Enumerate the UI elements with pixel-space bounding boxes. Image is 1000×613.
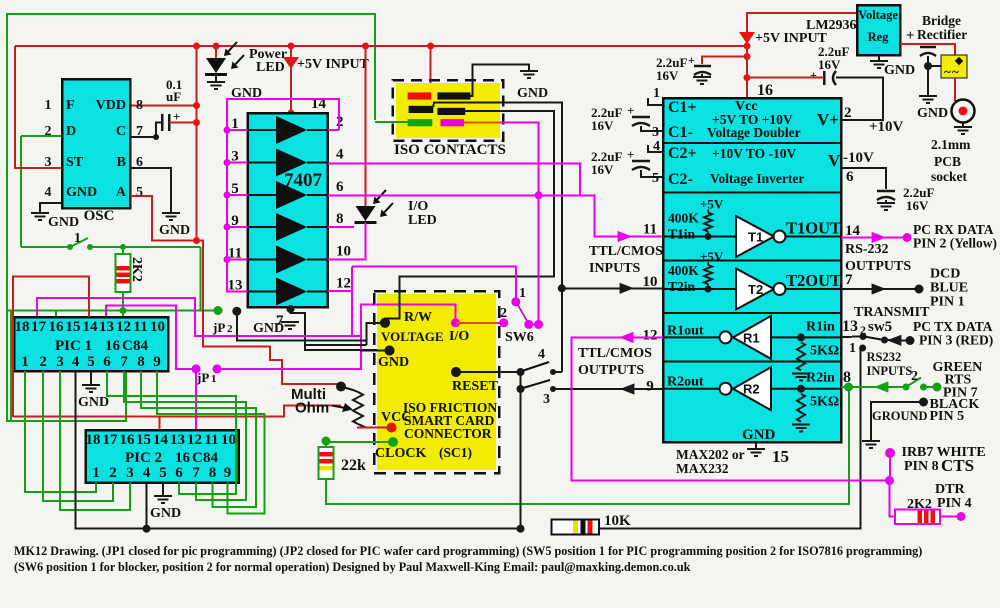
svg-text:13: 13 <box>842 318 858 335</box>
wire R1out magenta to CTS net <box>572 337 890 480</box>
ground MAX pin15 <box>755 442 757 449</box>
wire bottom rail right to sw5 throw1 <box>599 348 861 529</box>
ISO pad RST row2 left <box>409 106 434 113</box>
capacitor 2.2uF 16V on -10V <box>877 190 895 193</box>
7407 buffer 5 <box>276 246 307 274</box>
wire 22k to R2in long green <box>326 387 849 504</box>
variable resistor Multi Ohm <box>336 382 346 392</box>
wire I/O inside SC1 redraw <box>374 304 456 323</box>
svg-text:22k: 22k <box>341 457 366 474</box>
ground PCB socket <box>954 127 972 134</box>
wire 7407 pin12 net <box>328 290 353 292</box>
IC PIC 2 16C84 <box>86 430 239 483</box>
svg-text:R1: R1 <box>743 330 760 345</box>
svg-text:SW6: SW6 <box>505 330 534 345</box>
svg-text:4: 4 <box>653 139 660 154</box>
connector ISO CONTACTS <box>396 83 500 138</box>
wire PIC1 pin5 ground <box>90 371 92 385</box>
svg-text:C1-: C1- <box>668 124 693 141</box>
svg-text:PIC 2: PIC 2 <box>125 450 162 466</box>
svg-text:RS232: RS232 <box>867 350 902 364</box>
svg-text:GROUND: GROUND <box>872 409 928 423</box>
svg-text:(SW6 position 1 for blocker, p: (SW6 position 1 for blocker, position 2 … <box>14 560 691 574</box>
svg-text:8: 8 <box>336 211 344 227</box>
svg-text:11: 11 <box>133 319 147 335</box>
node jp1 pins <box>192 364 201 373</box>
svg-text:F: F <box>66 98 75 113</box>
wire: green to OSC pin2 D <box>21 135 62 137</box>
wire OSC pin6 B to ground <box>130 168 171 213</box>
svg-text:10: 10 <box>150 319 165 335</box>
svg-text:12: 12 <box>116 319 131 335</box>
svg-text:16V: 16V <box>591 118 614 133</box>
wire ISO row2-right to R/W net <box>385 111 554 323</box>
svg-text:17: 17 <box>103 432 119 448</box>
wire GROUND pin5 black <box>919 398 928 407</box>
connector 2.1mm PCB socket <box>952 100 975 123</box>
svg-text:ST: ST <box>66 155 84 170</box>
wire green PIC1.6 loop to PIC2.6 <box>107 371 236 494</box>
ground PIC2 <box>154 496 172 503</box>
svg-text:7407: 7407 <box>284 170 323 191</box>
svg-text:+5V: +5V <box>700 197 724 212</box>
svg-text:10: 10 <box>221 432 236 448</box>
svg-text:+: + <box>688 53 695 67</box>
node rail to ISO VCC pad <box>427 43 434 50</box>
svg-text:16V: 16V <box>591 162 614 177</box>
wire: rail branch down at x196 <box>196 46 198 241</box>
svg-text:I/O: I/O <box>449 329 469 344</box>
svg-text:TTL/CMOS: TTL/CMOS <box>589 244 663 259</box>
svg-text:1: 1 <box>519 286 526 301</box>
svg-text:(SC1): (SC1) <box>439 445 472 460</box>
svg-text:14: 14 <box>845 223 861 239</box>
svg-text:DTR: DTR <box>935 482 965 497</box>
svg-text:15: 15 <box>772 447 789 466</box>
node SC1 pin VCC <box>387 423 397 433</box>
svg-text:T2: T2 <box>748 282 763 297</box>
ground bridge cap <box>919 96 937 103</box>
svg-text:R2: R2 <box>743 382 760 397</box>
node SC1 pin R/W <box>380 318 390 328</box>
wire: +5V supply rail <box>15 45 747 47</box>
svg-text:C: C <box>122 338 133 354</box>
wire: 2K2 leads <box>122 247 124 254</box>
svg-text:T1OUT: T1OUT <box>786 219 841 238</box>
svg-text:PIN 8: PIN 8 <box>904 459 939 474</box>
wire RTS green with switch 2 <box>844 383 853 392</box>
svg-text:15: 15 <box>66 319 81 335</box>
wire ISO GND pad to ground <box>470 65 529 96</box>
wire R/W entry redraw <box>385 291 400 323</box>
7407 buffer 1 <box>276 116 307 144</box>
svg-text:Voltage: Voltage <box>858 8 898 22</box>
svg-text:+10V TO -10V: +10V TO -10V <box>712 146 796 161</box>
svg-text:+5V: +5V <box>700 249 724 264</box>
svg-text:TRANSMIT: TRANSMIT <box>854 305 930 320</box>
ground LM2936 <box>878 55 880 61</box>
svg-text:PIN 1: PIN 1 <box>930 295 965 310</box>
svg-text:1: 1 <box>92 465 100 481</box>
svg-text:84: 84 <box>203 450 219 466</box>
svg-text:8: 8 <box>137 354 145 370</box>
wire jp2 pin2 to ground net <box>237 311 367 340</box>
svg-text:jP: jP <box>212 320 225 335</box>
wire RESET redraw <box>456 371 521 373</box>
svg-text:R1out: R1out <box>667 323 704 338</box>
svg-text:4: 4 <box>538 347 545 362</box>
svg-text:D: D <box>66 124 76 139</box>
svg-text:400K: 400K <box>668 263 699 278</box>
svg-text:2: 2 <box>911 369 918 384</box>
wire: green riser at x11 <box>10 311 12 422</box>
svg-text:5: 5 <box>159 465 167 481</box>
svg-text:16: 16 <box>757 82 773 99</box>
svg-text:8: 8 <box>136 98 143 113</box>
svg-text:1: 1 <box>211 373 217 385</box>
7407 buffer 2 <box>276 149 307 177</box>
ISO pad CLOCK green <box>408 119 433 126</box>
svg-text:8: 8 <box>209 465 217 481</box>
svg-text:10: 10 <box>336 244 351 260</box>
IC MAX202 or MAX232 <box>663 98 841 442</box>
IC 7407 hex buffer <box>248 113 328 307</box>
svg-text:OUTPUTS: OUTPUTS <box>578 363 644 378</box>
wire PIC2 pin5 ground <box>162 483 164 497</box>
svg-text:2: 2 <box>39 354 47 370</box>
resistor 22k vertical <box>325 442 327 447</box>
wire magenta PIC1 pin17 / 7407 pin12 net <box>37 298 352 336</box>
power flag +5V INPUT left <box>288 43 295 50</box>
svg-text:CTS: CTS <box>941 456 974 475</box>
svg-text:16V: 16V <box>906 198 929 213</box>
svg-text:CONNECTOR: CONNECTOR <box>404 426 492 441</box>
svg-text:C2+: C2+ <box>668 145 697 162</box>
wire 7407 pin2 stub <box>328 129 340 131</box>
switch 4 <box>522 362 549 371</box>
svg-text:uF: uF <box>166 89 181 104</box>
svg-text:Ohm: Ohm <box>295 400 329 417</box>
svg-text:16V: 16V <box>656 68 679 83</box>
wire SC1 RESET to switches <box>456 371 521 373</box>
svg-text:T2in: T2in <box>668 279 696 294</box>
svg-text:INPUTS: INPUTS <box>867 364 913 378</box>
svg-text:16V: 16V <box>818 57 841 72</box>
svg-text:Voltage Inverter: Voltage Inverter <box>710 171 804 186</box>
svg-text:5: 5 <box>136 185 143 200</box>
wire OSC pin4 GND <box>40 203 62 213</box>
wire SC1 I/O pin to SW6 throw 2 <box>455 304 457 323</box>
wire PIC2 pin4 to bottom ground rail <box>146 483 148 529</box>
resistor 5K R2 <box>797 394 805 422</box>
svg-text:17: 17 <box>31 319 47 335</box>
svg-text:Rectifier: Rectifier <box>917 27 967 42</box>
svg-text:C: C <box>192 450 203 466</box>
wire red MCLR rail to PIC2 pin14 and multiohm wiper <box>13 406 341 417</box>
node jp2 pin 1 <box>214 306 223 315</box>
node A net junction <box>193 237 200 244</box>
svg-text:INPUTS: INPUTS <box>589 261 641 276</box>
svg-text:16: 16 <box>105 338 121 354</box>
svg-text:13: 13 <box>99 319 114 335</box>
svg-text:2: 2 <box>844 105 852 121</box>
svg-text:MAX232: MAX232 <box>676 461 729 476</box>
svg-text:9: 9 <box>646 379 654 395</box>
node power LED on rail <box>213 43 220 50</box>
svg-text:14: 14 <box>153 432 169 448</box>
svg-text:GND: GND <box>66 185 97 200</box>
ISO pad I/O magenta <box>441 119 465 126</box>
svg-text:12: 12 <box>187 432 202 448</box>
svg-text:A: A <box>116 185 127 200</box>
svg-text:OUTPUTS: OUTPUTS <box>845 259 911 274</box>
svg-text:7: 7 <box>136 124 143 139</box>
svg-text:5: 5 <box>652 171 659 186</box>
wire green PIC1.9 loop to PIC2.9 <box>157 371 265 514</box>
node IRB7 CTS terminal <box>885 448 895 458</box>
svg-text:1: 1 <box>74 231 81 246</box>
svg-text:R1in: R1in <box>806 319 835 334</box>
svg-text:PIN 5: PIN 5 <box>930 409 965 424</box>
wire OSC pin5 A red VCC net <box>130 196 341 384</box>
svg-text:T2OUT: T2OUT <box>786 271 841 290</box>
svg-text:+5V INPUT: +5V INPUT <box>297 57 370 72</box>
svg-text:DCD: DCD <box>930 267 960 282</box>
7407 buffer 4 <box>276 213 307 241</box>
svg-text:2: 2 <box>227 323 233 335</box>
svg-text:-10V: -10V <box>843 150 874 166</box>
svg-text:8: 8 <box>843 369 851 386</box>
svg-text:16: 16 <box>49 319 65 335</box>
svg-text:VDD: VDD <box>96 98 126 113</box>
wire I/O LED cathode to 7407 pin10 <box>328 223 366 260</box>
svg-text:+10V: +10V <box>869 119 904 135</box>
svg-text:GND: GND <box>884 63 915 78</box>
svg-text:18: 18 <box>15 319 30 335</box>
wire CLOCK green to 22k <box>326 441 393 443</box>
wire ISO I/O pad to SW6 <box>464 122 502 124</box>
ground 7407 pin7 <box>281 322 299 329</box>
svg-text:2.1mm: 2.1mm <box>931 137 971 152</box>
svg-text:6: 6 <box>175 465 183 481</box>
svg-text:6: 6 <box>846 169 854 185</box>
wire green PIC1.3 to PIC2.3 <box>60 371 130 510</box>
wire T1OUT to PC RX <box>841 237 907 239</box>
svg-text:B: B <box>117 155 126 170</box>
svg-text:RS-232: RS-232 <box>845 242 889 257</box>
svg-text:5KΩ: 5KΩ <box>810 395 839 410</box>
svg-text:4: 4 <box>143 465 151 481</box>
svg-text:VOLTAGE: VOLTAGE <box>381 329 444 344</box>
wire bridge to PCB socket <box>954 78 956 101</box>
LED I/O <box>356 206 376 221</box>
IC PIC 1 16C84 <box>14 317 168 371</box>
wire: stub clock bus to PIC1 pin16 <box>55 311 57 318</box>
wire green PIC1.8 loop to PIC2.8 <box>141 371 256 507</box>
svg-text:2K2: 2K2 <box>907 497 932 512</box>
svg-text:~: ~ <box>944 64 951 79</box>
svg-text:3: 3 <box>543 392 550 407</box>
7407 buffer 6 <box>276 278 307 306</box>
svg-text:C: C <box>116 124 126 139</box>
receiver R1 <box>732 336 842 338</box>
svg-text:PIN 2 (Yellow): PIN 2 (Yellow) <box>913 236 997 251</box>
7407 buffer 3 <box>276 181 307 209</box>
svg-text:LM2936: LM2936 <box>806 18 857 33</box>
wire reg output to bridge <box>900 44 955 55</box>
node SC1 pin GND <box>385 346 395 356</box>
wire magenta PIC1 pin13 to jp1 <box>106 306 196 369</box>
svg-text:R2in: R2in <box>806 371 835 386</box>
svg-text:C2-: C2- <box>668 171 693 188</box>
svg-text:GND: GND <box>742 427 776 443</box>
wire magenta jp1 to SC1 I/O <box>217 304 456 369</box>
resistor 2K2 horizontal DTR <box>895 510 940 525</box>
svg-text:GND: GND <box>253 321 284 336</box>
svg-text:7: 7 <box>192 465 200 481</box>
wire T2in riser to switch 4 <box>561 288 563 372</box>
svg-text:2: 2 <box>45 124 52 139</box>
svg-text:PIN 4: PIN 4 <box>937 496 972 511</box>
receiver R2 <box>732 388 842 390</box>
wire jp1 to PIC2 pin12 <box>195 369 197 430</box>
wire: OSC pin8 VDD <box>130 105 197 107</box>
svg-text:GND: GND <box>78 395 109 410</box>
svg-text:ISO CONTACTS: ISO CONTACTS <box>394 142 506 158</box>
ground OSC pin6 <box>162 213 180 220</box>
svg-text:T1: T1 <box>748 230 763 245</box>
wire T2OUT to DCD <box>841 288 919 290</box>
wire R/W branch of ground net <box>305 344 367 346</box>
node CTS junction <box>885 476 894 485</box>
resistor 5K R1 <box>797 342 805 370</box>
svg-text:+: + <box>906 28 915 44</box>
svg-text:4: 4 <box>72 354 80 370</box>
wire green PIC1.1 to PIC2.1 <box>25 371 96 492</box>
svg-text:9: 9 <box>153 354 161 370</box>
switch 3 <box>523 380 550 388</box>
svg-text:R2out: R2out <box>667 375 704 390</box>
wire green PIC1.2 to PIC2.2 <box>43 371 113 501</box>
ground power LED <box>207 82 225 89</box>
svg-text:4: 4 <box>45 185 52 200</box>
svg-text:V: V <box>828 151 841 170</box>
wire: green border net top and left <box>7 14 375 421</box>
svg-text:LED: LED <box>408 213 437 228</box>
svg-text:MAX202 or: MAX202 or <box>676 447 745 462</box>
svg-text:1: 1 <box>45 98 52 113</box>
node jp2 pin2 black <box>232 307 241 316</box>
wire PIC1 pin14 MCLR red <box>13 277 89 418</box>
svg-text:10K: 10K <box>604 513 631 529</box>
wire multiohm bottom to VCC <box>357 427 392 429</box>
svg-text:1: 1 <box>849 341 856 356</box>
svg-text:GND: GND <box>150 506 181 521</box>
wire: switch1 output bus <box>90 246 201 248</box>
wire 7407 pin7 ground net <box>291 307 390 350</box>
node I/O net to SW6 riser <box>535 191 543 199</box>
ground Vcc cap <box>693 77 711 84</box>
switch 1 <box>21 246 70 248</box>
svg-text:Voltage Doubler: Voltage Doubler <box>707 125 801 140</box>
wire 7407 pin4 line to T1in join <box>328 164 581 196</box>
svg-text:13: 13 <box>170 432 185 448</box>
svg-text:11: 11 <box>204 432 218 448</box>
svg-text:C1+: C1+ <box>668 99 697 116</box>
wire: Vcc pin16 feed <box>746 46 748 98</box>
svg-text:6: 6 <box>103 354 111 370</box>
wire: rail to LM2936 <box>747 13 857 46</box>
wire T2in from ISO/RESET riser <box>558 284 566 292</box>
wire PIC1 pin4 to bottom rail black <box>76 371 521 529</box>
svg-text:15: 15 <box>136 432 151 448</box>
svg-text:84: 84 <box>133 338 149 354</box>
svg-text:~: ~ <box>952 64 959 79</box>
svg-text:3: 3 <box>56 354 64 370</box>
svg-text:7: 7 <box>845 272 853 288</box>
wire GND entry redraw <box>360 350 390 352</box>
svg-text:16: 16 <box>175 450 191 466</box>
svg-text:2K2: 2K2 <box>129 257 144 282</box>
resistor 10K horizontal <box>552 520 600 535</box>
svg-text:Bridge: Bridge <box>922 13 961 28</box>
svg-text:socket: socket <box>931 169 967 184</box>
svg-text:PCB: PCB <box>934 154 961 169</box>
svg-text:MK12 Drawing. (JP1 closed for: MK12 Drawing. (JP1 closed for pic progra… <box>14 544 922 558</box>
zigzag of multiohm <box>353 392 363 424</box>
svg-text:400K: 400K <box>668 211 699 226</box>
svg-text:+: + <box>810 68 817 82</box>
svg-text:Reg: Reg <box>868 30 890 44</box>
svg-text:PIC 1: PIC 1 <box>55 338 92 354</box>
svg-text:14: 14 <box>83 319 99 335</box>
wire ISO row2-left to T2in net <box>433 103 562 289</box>
node rail to I/O LED <box>362 43 369 50</box>
ground RS232 ground pin <box>862 441 880 448</box>
capacitor C 0.1uF <box>130 123 162 138</box>
wire 7407 pin8 stub to LED <box>328 226 355 228</box>
svg-text:2: 2 <box>109 465 117 481</box>
svg-text:+5V INPUT: +5V INPUT <box>755 31 828 46</box>
wire: green clock bus to jp2 <box>7 310 218 312</box>
svg-text:6: 6 <box>336 179 344 195</box>
node SC1 pin CLOCK <box>388 437 398 447</box>
IC LM2936 voltage regulator <box>857 5 900 55</box>
svg-text:1: 1 <box>653 86 660 101</box>
svg-text:jP: jP <box>196 370 209 385</box>
power flag +5V INPUT right <box>739 32 755 44</box>
wire 7407 pin6 line to T1in (I/O net) <box>328 195 664 236</box>
svg-text:RESET: RESET <box>452 379 499 394</box>
svg-text:LED: LED <box>256 60 285 75</box>
wire: rail to 7407 pin 14 <box>290 46 292 113</box>
svg-text:5: 5 <box>87 354 95 370</box>
svg-text:3: 3 <box>652 125 659 140</box>
svg-text:GND: GND <box>917 106 948 121</box>
svg-text:sw5: sw5 <box>868 319 892 335</box>
svg-text:GND: GND <box>159 223 190 238</box>
svg-text:BLUE: BLUE <box>930 281 968 296</box>
ISO pad VCC red <box>408 92 432 99</box>
wire CTS to 2K2 DTR <box>890 481 896 517</box>
svg-text:9: 9 <box>224 465 232 481</box>
wire RESET riser to bottom rail <box>520 372 522 529</box>
svg-text:3: 3 <box>45 155 52 170</box>
svg-text:12: 12 <box>336 276 351 292</box>
ISO pad CLK row2 right <box>437 108 465 115</box>
svg-text:GND: GND <box>517 86 548 101</box>
svg-text:1: 1 <box>21 354 29 370</box>
